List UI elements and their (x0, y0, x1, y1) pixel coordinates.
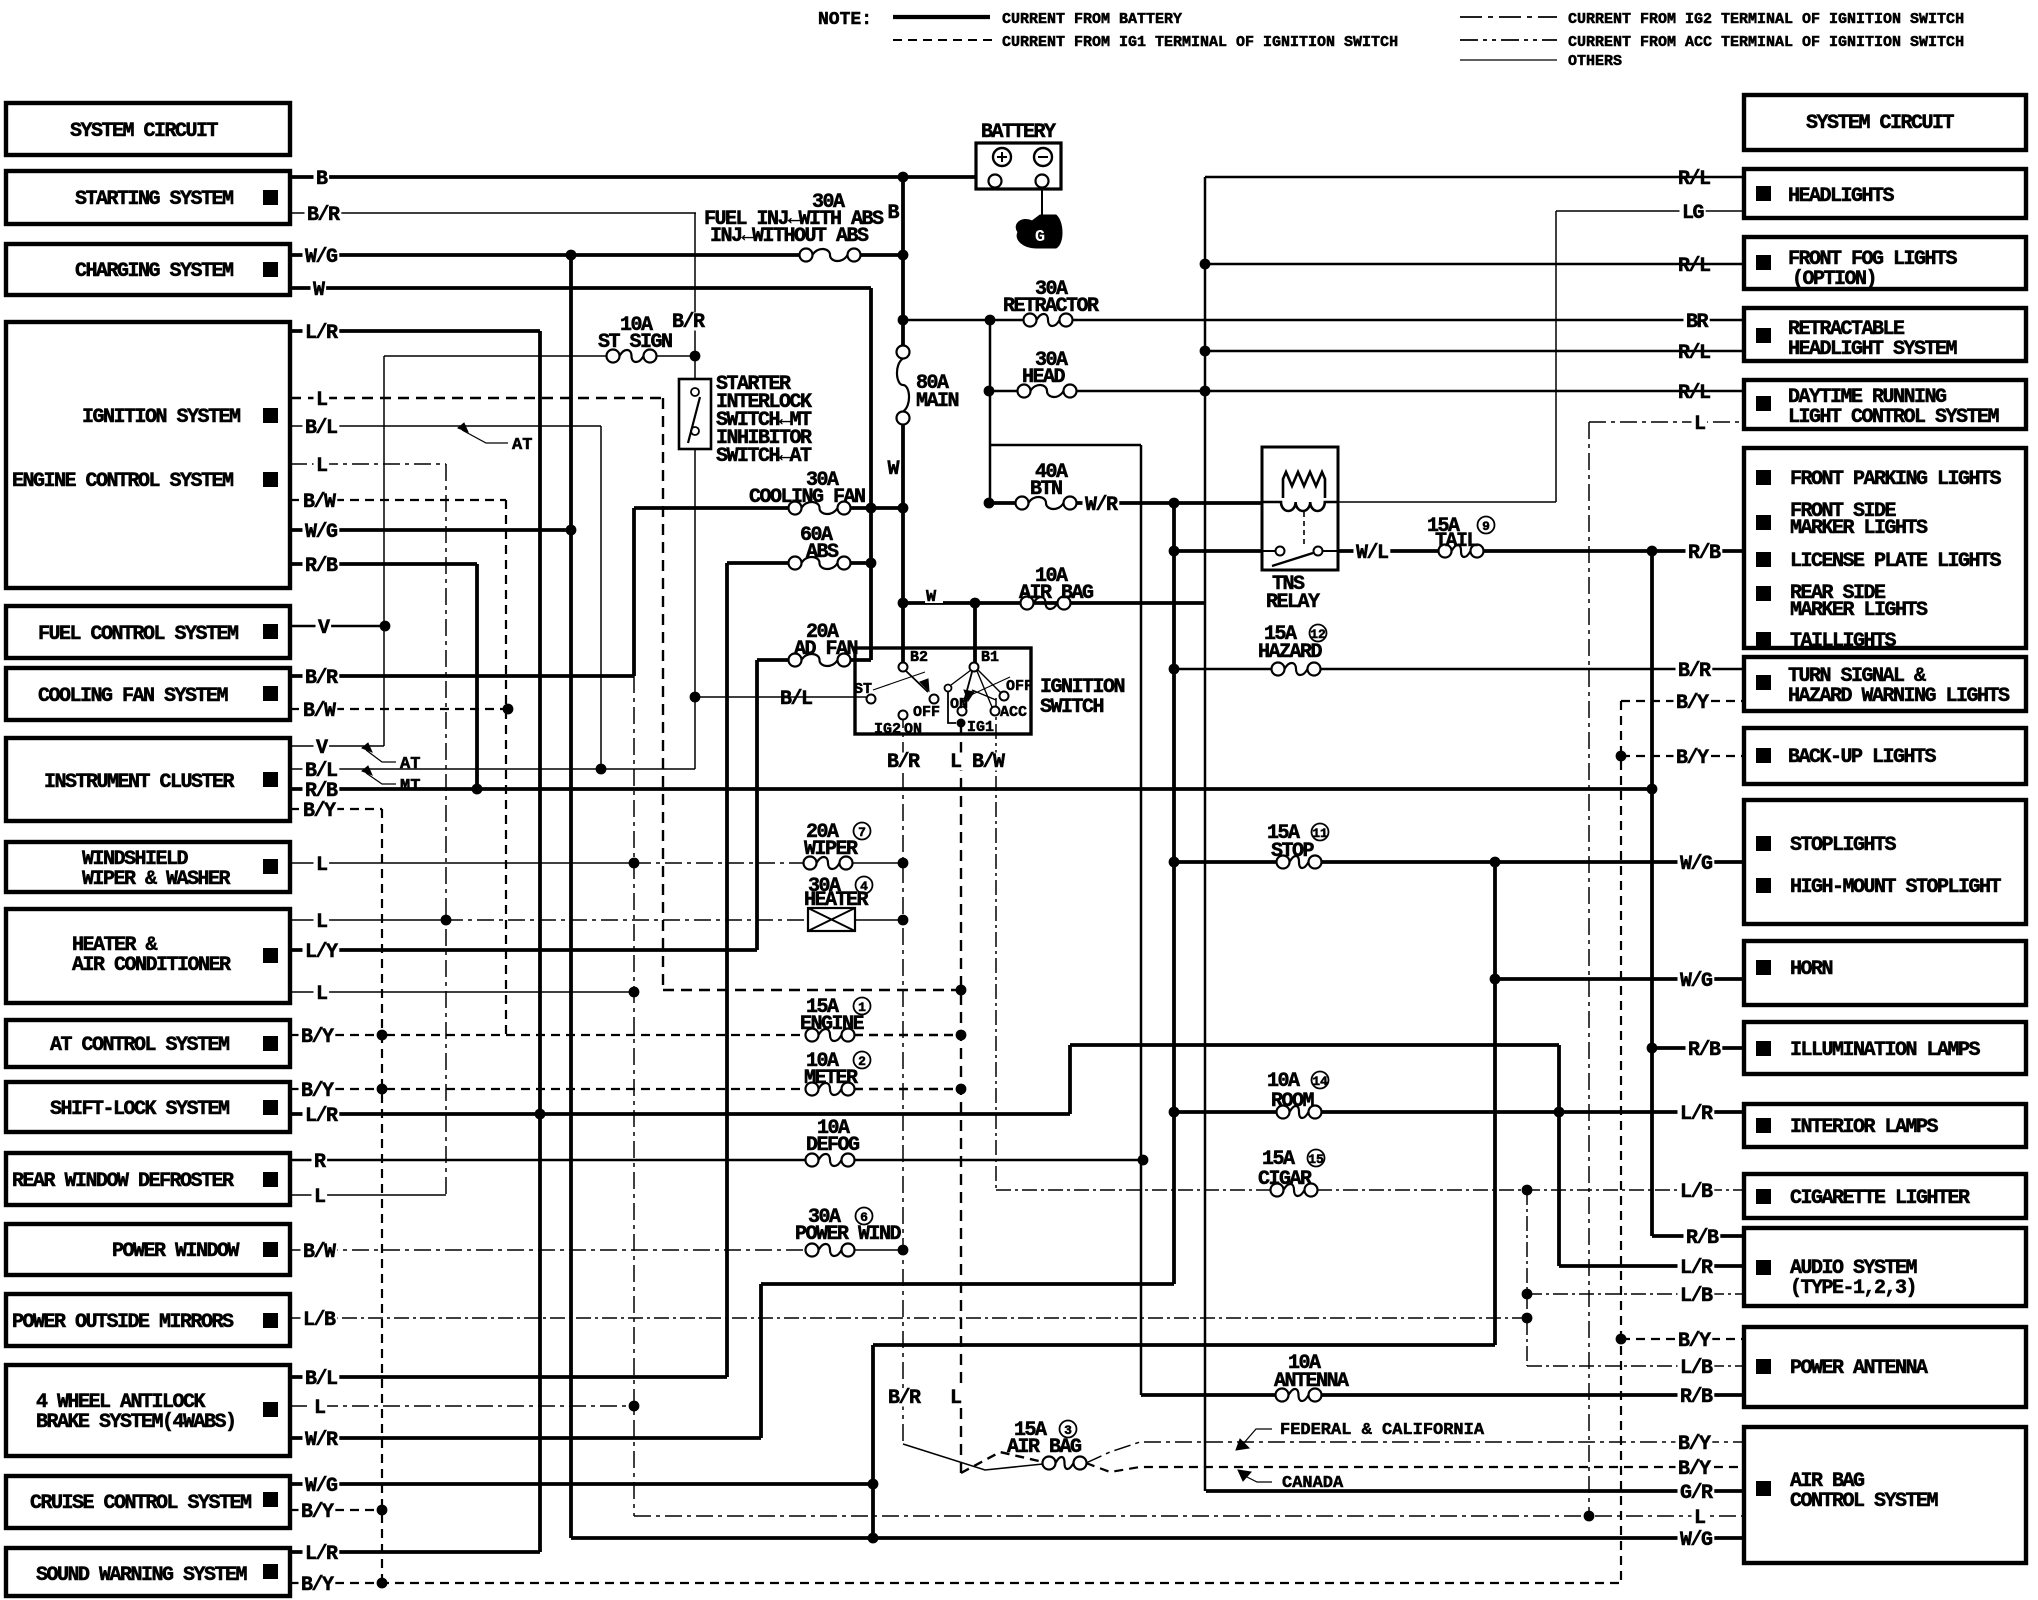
box HEATER & AIR CONDITIONER (6, 909, 290, 1003)
svg-text:ACC: ACC (1000, 704, 1027, 721)
wire R/B audio (1652, 1234, 1744, 1238)
wire B/Y antenna dashed (1621, 1338, 1744, 1340)
wire stop line (1174, 860, 1277, 864)
box DAYTIME RUNNING LIGHT CONTROL SYSTEM (1744, 380, 2026, 429)
svg-text:R/B: R/B (1688, 1039, 1721, 1062)
svg-text:TAIL: TAIL (1435, 530, 1478, 553)
arrow MT cluster (362, 766, 372, 775)
svg-text:R/B: R/B (1688, 542, 1721, 565)
ignition switch contact OFF right (1000, 692, 1009, 701)
wire tail fuse to R/B (1483, 549, 1744, 553)
svg-text:L: L (316, 455, 327, 478)
node hazard tap (1169, 664, 1180, 675)
ignition switch blade B1-contact (951, 670, 971, 685)
relay TNS box (1262, 447, 1338, 570)
wire B/L from instrument cluster (290, 768, 695, 770)
svg-text:B/R: B/R (672, 311, 705, 334)
svg-text:IGNITION SYSTEM: IGNITION SYSTEM (82, 406, 241, 429)
legend battery line (893, 15, 990, 19)
wire L from windshield wiper (290, 862, 634, 864)
svg-text:AT CONTROL SYSTEM: AT CONTROL SYSTEM (50, 1034, 230, 1057)
svg-text:B/R: B/R (1678, 660, 1711, 683)
wire engine fuse to IG1 bus (854, 1034, 961, 1036)
svg-text:AD FAN: AD FAN (794, 638, 858, 661)
node L/R interior junction (1554, 1107, 1565, 1118)
box REAR WINDOW DEFROSTER (6, 1153, 290, 1205)
svg-text:W/G: W/G (305, 246, 338, 269)
svg-text:W: W (313, 279, 325, 302)
bus L others vertical x634 (633, 676, 635, 1516)
node B/W junction (503, 704, 514, 715)
wire AD FAN fuse to W bus (850, 658, 871, 662)
fuse 15A HAZARD (1272, 663, 1285, 676)
wire B/L to ST (695, 696, 866, 698)
node B bus ignition feed (898, 598, 909, 609)
node W ABS tap (866, 558, 877, 569)
svg-text:MT: MT (400, 777, 420, 796)
ignition switch cross line 2 (960, 677, 1010, 700)
svg-text:BACK-UP LIGHTS: BACK-UP LIGHTS (1788, 746, 1937, 769)
node W cooling tap (866, 503, 877, 514)
wire AD FAN fuse line (757, 658, 789, 662)
legend ACC line (1460, 39, 1557, 41)
svg-text:7: 7 (858, 825, 866, 840)
fuse 15A AIR BAG (1043, 1457, 1056, 1470)
wire B/Y dashed from shift-lock (290, 1088, 386, 1090)
relay TNS link dashed (1303, 512, 1305, 544)
node head fuse tap (984, 386, 995, 397)
svg-text:B: B (887, 202, 899, 225)
svg-text:WIPER & WASHER: WIPER & WASHER (82, 868, 231, 891)
wire L from heater (290, 919, 446, 921)
bus R/B vertical x1652 (1650, 551, 1654, 1236)
svg-text:COOLING FAN SYSTEM: COOLING FAN SYSTEM (38, 685, 229, 708)
wire B1 drop (973, 603, 977, 663)
wire W/R BTN out (1076, 501, 1262, 505)
box INTERIOR LAMPS (1744, 1104, 2026, 1147)
bus W vertical x871 (869, 288, 873, 660)
wire R from rear defroster (290, 1159, 806, 1162)
wire L/B audio dash-dot (1527, 1293, 1744, 1295)
svg-text:HIGH-MOUNT STOPLIGHT: HIGH-MOUNT STOPLIGHT (1790, 876, 2002, 899)
fuse 10A AIR BAG (1021, 597, 1034, 610)
node W/G horn junction (1490, 974, 1501, 985)
svg-text:ILLUMINATION LAMPS: ILLUMINATION LAMPS (1790, 1039, 1981, 1062)
svg-text:L: L (314, 1186, 325, 1209)
svg-text:CONTROL SYSTEM: CONTROL SYSTEM (1790, 1490, 1939, 1513)
node B/Y backup junction (1616, 751, 1627, 762)
wire meter fuse to IG1 bus (854, 1088, 961, 1090)
box COOLING FAN SYSTEM (6, 668, 290, 720)
bus W/G vertical x571 (569, 255, 573, 1538)
bus cooling fan feed x634 upper (632, 508, 636, 676)
node L heater2 junction (629, 987, 640, 998)
svg-text:B/Y: B/Y (1678, 1433, 1711, 1456)
ignition switch blade B1-ACC (977, 671, 992, 707)
label L IG1 bus (948, 1389, 964, 1407)
node R/B cluster left junction (472, 784, 483, 795)
wire cooling fan fuse line (634, 506, 789, 510)
fuse 60A ABS (789, 557, 802, 570)
svg-text:G/R: G/R (1680, 1482, 1713, 1505)
node V junction (380, 621, 391, 632)
svg-text:CURRENT FROM IG2 TERMINAL OF I: CURRENT FROM IG2 TERMINAL OF IGNITION SW… (1568, 11, 1964, 28)
node ST SIGN junction (690, 351, 701, 362)
svg-text:R/L: R/L (1678, 168, 1710, 191)
svg-text:HAZARD WARNING LIGHTS: HAZARD WARNING LIGHTS (1788, 685, 2010, 708)
svg-text:W/G: W/G (305, 1475, 338, 1498)
box HEADLIGHTS (1744, 169, 2026, 218)
node B/Y sound junction (377, 1578, 388, 1589)
svg-text:POWER WIND: POWER WIND (795, 1223, 902, 1246)
svg-text:IG2: IG2 (874, 721, 901, 738)
svg-text:BR: BR (1686, 311, 1709, 334)
wire L/R riser jog (1068, 1045, 1072, 1114)
bus B main vertical (901, 177, 905, 345)
svg-text:OFF: OFF (1006, 678, 1033, 695)
relay TNS coil (1262, 502, 1338, 511)
wire room line (1174, 1110, 1277, 1114)
svg-text:V: V (318, 617, 330, 640)
svg-text:AT: AT (512, 436, 532, 455)
bus L/R audio vertical x1559 (1557, 1045, 1561, 1266)
starter interlock blade (688, 397, 700, 443)
svg-text:MARKER LIGHTS: MARKER LIGHTS (1790, 599, 1928, 622)
svg-text:HEAD: HEAD (1022, 366, 1066, 389)
svg-text:ON: ON (904, 721, 922, 738)
wire R/B from instrument cluster (290, 787, 1652, 791)
svg-text:TAILLIGHTS: TAILLIGHTS (1790, 630, 1897, 653)
bus head feed vertical x989 (989, 320, 992, 503)
svg-text:B/Y: B/Y (1678, 1458, 1711, 1481)
legend IG1 line (893, 39, 992, 41)
svg-text:ANTENNA: ANTENNA (1274, 1370, 1349, 1393)
svg-text:B/W: B/W (303, 1241, 336, 1264)
fuse 20A WIPER (804, 857, 817, 870)
starter interlock switch box (679, 379, 711, 449)
svg-text:L: L (316, 983, 327, 1006)
fuse 15A CIGAR (1271, 1184, 1284, 1197)
svg-text:OTHERS: OTHERS (1568, 53, 1622, 70)
svg-text:L: L (316, 854, 327, 877)
node B bus top (898, 172, 909, 183)
fuse 30A FUEL INJ (800, 249, 813, 262)
svg-text:ENGINE CONTROL SYSTEM: ENGINE CONTROL SYSTEM (12, 470, 234, 493)
wire ST SIGN fuse to B/R (656, 355, 695, 357)
wire W/L to tail fuse (1338, 549, 1439, 553)
wire head jog to defog bus (989, 444, 1141, 447)
wire V from fuel control (290, 625, 385, 628)
node W/G engine junction (566, 525, 577, 536)
wire TNS coil to LG riser (1338, 501, 1556, 503)
wire L dashed from ignition system (290, 397, 663, 399)
svg-text:AIR BAG: AIR BAG (1019, 582, 1094, 605)
node B/Y cruise junction (377, 1505, 388, 1516)
wire R/L headlights (1205, 176, 1744, 179)
svg-text:B/W: B/W (972, 751, 1005, 774)
svg-text:ENGINE: ENGINE (800, 1013, 865, 1036)
ignition switch blade B2-OFF (906, 671, 928, 692)
wire L dashed to IG1 bus (663, 989, 961, 991)
svg-text:2: 2 (858, 1054, 866, 1069)
ignition switch box (855, 648, 1031, 734)
wire cooling fan fuse to B bus (850, 506, 903, 510)
wire hazard line (1174, 668, 1272, 671)
svg-text:SWITCH: SWITCH (1040, 696, 1104, 719)
node R/L retract tap (1200, 346, 1211, 357)
svg-text:B2: B2 (910, 649, 928, 666)
svg-text:B/W: B/W (303, 700, 336, 723)
ignition switch pole2 contact (945, 685, 952, 692)
wire L heater to fusible link (446, 919, 808, 921)
wire B/Y to meter fuse dashed (386, 1088, 806, 1090)
box ILLUMINATION LAMPS (1744, 1022, 2026, 1074)
wire B/W dashed from cooling fan system (290, 708, 512, 710)
svg-text:CIGAR: CIGAR (1258, 1168, 1312, 1191)
fuse 10A DEFOG (806, 1154, 819, 1167)
wire B/L from 4WABS (290, 1375, 727, 1379)
svg-text:15: 15 (1308, 1152, 1324, 1167)
svg-text:HEADLIGHTS: HEADLIGHTS (1788, 185, 1895, 208)
svg-text:POWER ANTENNA: POWER ANTENNA (1790, 1357, 1928, 1380)
bus R/B vertical x477 (475, 564, 479, 789)
svg-text:STOPLIGHTS: STOPLIGHTS (1790, 834, 1897, 857)
svg-text:B/Y: B/Y (301, 1080, 334, 1103)
node L heater junction (441, 915, 452, 926)
wire B/Y dashed from instrument cluster (290, 808, 382, 810)
svg-text:W/G: W/G (305, 521, 338, 544)
svg-text:B/Y: B/Y (1676, 747, 1709, 770)
wire B/Y dashed from AT control (290, 1034, 386, 1036)
box WINDSHIELD WIPER & WASHER (6, 842, 290, 892)
svg-text:HAZARD: HAZARD (1258, 641, 1323, 664)
wire airbag fuse out federal (1086, 1442, 1744, 1463)
wire B from starting system (290, 175, 976, 179)
label W bus (885, 460, 901, 478)
box SYSTEM CIRCUIT right (1744, 95, 2026, 150)
fuse 10A METER (806, 1083, 819, 1096)
svg-text:RETRACTOR: RETRACTOR (1003, 295, 1099, 318)
svg-text:L/R: L/R (1680, 1257, 1713, 1280)
svg-text:B/Y: B/Y (301, 1574, 334, 1597)
legend IG2 line (1460, 16, 1557, 18)
svg-text:SHIFT-LOCK SYSTEM: SHIFT-LOCK SYSTEM (50, 1098, 230, 1121)
wire B2 drop (901, 603, 905, 663)
svg-text:INSTRUMENT CLUSTER: INSTRUMENT CLUSTER (44, 771, 235, 794)
svg-text:CRUISE CONTROL SYSTEM: CRUISE CONTROL SYSTEM (30, 1492, 252, 1515)
wire BR retractor to box (1072, 319, 1744, 322)
arrow canada (1238, 1470, 1251, 1481)
wire ABS fuse to W bus (850, 561, 871, 565)
ignition switch cross line (873, 672, 925, 690)
box FRONT PARKING / MARKER / LICENSE / TAIL LIGHTS (1744, 448, 2026, 648)
svg-text:SWITCH←AT: SWITCH←AT (716, 445, 812, 468)
svg-text:R/B: R/B (1686, 1227, 1719, 1250)
bus B/L ABS vertical x727 (725, 563, 729, 1377)
svg-text:L/R: L/R (1680, 1103, 1713, 1126)
box RETRACTABLE HEADLIGHT SYSTEM (1744, 308, 2026, 361)
wire B/Y dashed from sound warning (290, 1582, 1621, 1584)
svg-text:B1: B1 (981, 649, 999, 666)
box STOPLIGHTS / HIGH-MOUNT STOPLIGHT (1744, 800, 2026, 924)
fuse 30A POWER WIND (806, 1244, 819, 1257)
svg-text:B/R: B/R (307, 204, 340, 227)
svg-text:SYSTEM CIRCUIT: SYSTEM CIRCUIT (1806, 112, 1955, 135)
svg-text:W/L: W/L (1356, 542, 1388, 565)
ignition switch blade B1-ON (963, 672, 972, 705)
svg-text:POWER OUTSIDE MIRRORS: POWER OUTSIDE MIRRORS (12, 1311, 234, 1334)
wire battery to ground (1041, 188, 1043, 222)
svg-text:BRAKE SYSTEM(4WABS): BRAKE SYSTEM(4WABS) (36, 1411, 236, 1434)
box FRONT FOG LIGHTS (1744, 237, 2026, 289)
wire W/G from charging system (290, 253, 805, 257)
wire W/G stop to box (1321, 860, 1744, 864)
bus B/R ST vertical x695 (694, 213, 696, 769)
bus L dashed vertical x663 (662, 398, 664, 990)
node L airbag junction (1584, 1511, 1595, 1522)
ignition switch terminal ST (867, 695, 876, 704)
bus W/R vertical x761 (759, 1284, 763, 1438)
svg-text:L/R: L/R (305, 1543, 338, 1566)
wire TNS switch feed (1174, 549, 1262, 553)
bus defog/antenna vertical x1141 (1140, 445, 1143, 1395)
svg-text:B/R: B/R (888, 1387, 921, 1410)
box 4 WHEEL ANTILOCK BRAKE SYSTEM (6, 1365, 290, 1456)
svg-text:DEFOG: DEFOG (806, 1134, 860, 1157)
fuse 20A AD FAN (789, 654, 802, 667)
ignition switch terminal B1 (970, 663, 979, 672)
node W/G cruise junction (868, 1479, 879, 1490)
bus L daytime vertical x1589 (1588, 422, 1590, 1516)
bus L IG2 vertical x446 (445, 464, 447, 1195)
fusible link 30A HEATER (808, 908, 855, 931)
svg-text:R/L: R/L (1678, 342, 1710, 365)
bus W/G vertical x1495 (1493, 862, 1497, 1345)
node L/B audio junction (1522, 1289, 1533, 1300)
svg-text:W/R: W/R (1085, 494, 1118, 517)
box BACK-UP LIGHTS (1744, 728, 2026, 784)
svg-text:ON: ON (950, 696, 968, 713)
svg-text:W/G: W/G (1680, 1529, 1713, 1552)
svg-text:MARKER LIGHTS: MARKER LIGHTS (1790, 517, 1928, 540)
svg-text:NOTE:: NOTE: (818, 10, 872, 30)
svg-text:(TYPE-1,2,3): (TYPE-1,2,3) (1790, 1277, 1916, 1300)
bus B/Y vertical x1621 (1620, 701, 1622, 1586)
wire R/B illumination (1652, 1046, 1744, 1050)
svg-text:R/L: R/L (1678, 255, 1710, 278)
wire ST B/L label (778, 690, 815, 708)
wire R/L fog (1205, 263, 1744, 266)
wire L/B dash-dot from power mirrors (290, 1317, 1527, 1319)
fuse 10A ST SIGN (607, 350, 620, 363)
relay TNS switch (1276, 547, 1285, 556)
svg-text:L: L (950, 1387, 961, 1410)
svg-text:LG: LG (1682, 202, 1705, 225)
svg-text:B/R: B/R (887, 751, 920, 774)
wire L daytime dash-dot (1589, 421, 1744, 423)
svg-text:METER: METER (804, 1067, 858, 1090)
wire L dash-dot from 4WABS (290, 1405, 634, 1407)
wire B/R from cooling fan system (290, 674, 634, 678)
svg-text:14: 14 (1312, 1074, 1328, 1089)
relay TNS resistor (1283, 472, 1325, 498)
wire B/R hazard to box (1320, 668, 1744, 671)
wire L/R room to box (1321, 1110, 1744, 1114)
box AUDIO SYSTEM (1744, 1228, 2026, 1306)
wire W/G jog (873, 1343, 1495, 1347)
svg-text:L/Y: L/Y (305, 941, 338, 964)
bus ST SIGN feed vertical (383, 356, 385, 746)
wire W/R from 4WABS (290, 1436, 761, 1440)
svg-text:L: L (950, 751, 961, 774)
svg-text:ROOM: ROOM (1271, 1090, 1315, 1113)
svg-text:W/G: W/G (1680, 970, 1713, 993)
wire R/B antenna to box (1321, 1393, 1744, 1397)
wire airbag fuse out canada (1086, 1463, 1744, 1472)
wire retractor line (903, 319, 1024, 322)
svg-text:FRONT PARKING LIGHTS: FRONT PARKING LIGHTS (1790, 468, 2002, 491)
wire L/R from sound warning (290, 1550, 540, 1554)
svg-text:B/R: B/R (305, 667, 338, 690)
node B/Y AT junction (377, 1030, 388, 1041)
wire W from charging system (290, 286, 871, 290)
node room tap (1169, 1107, 1180, 1118)
wire L/R from shift-lock (290, 1112, 1070, 1116)
svg-text:9: 9 (1482, 519, 1490, 534)
wire B/Y turn signal dashed (1621, 700, 1744, 702)
svg-text:RELAY: RELAY (1266, 591, 1320, 614)
fuse 30A HEAD (1018, 385, 1031, 398)
svg-text:LIGHT CONTROL SYSTEM: LIGHT CONTROL SYSTEM (1788, 406, 2000, 429)
svg-text:B/Y: B/Y (303, 800, 336, 823)
svg-text:L: L (1694, 1507, 1705, 1530)
wire ABS fuse line (727, 561, 789, 565)
node W/G stop junction (1490, 857, 1501, 868)
svg-text:L/B: L/B (1680, 1357, 1713, 1380)
bus AD FAN vertical x757 (755, 660, 759, 950)
node B/L cluster junction (596, 764, 607, 775)
node B/Y shift junction (377, 1084, 388, 1095)
box POWER OUTSIDE MIRRORS (6, 1294, 290, 1346)
wire B/Y dashed from cruise control (290, 1509, 386, 1511)
wire BTN fuse line (989, 501, 1016, 505)
svg-text:V: V (316, 737, 328, 760)
wire antenna feed (1141, 1393, 1276, 1397)
svg-text:HORN: HORN (1790, 958, 1833, 981)
wire airbag fuse feed IG1 (961, 1452, 1043, 1473)
box AIR BAG CONTROL SYSTEM (1744, 1427, 2026, 1563)
svg-text:R/B: R/B (305, 555, 338, 578)
fuse 30A RETRACTOR (1024, 314, 1037, 327)
svg-text:R/B: R/B (1680, 1386, 1713, 1409)
svg-text:L: L (314, 1397, 325, 1420)
bus B/Y dashed vertical (381, 809, 383, 1583)
fuse 10A ROOM (1277, 1106, 1290, 1119)
legend others line (1460, 59, 1557, 61)
fuse 30A COOLING FAN (789, 502, 802, 515)
svg-text:R/L: R/L (1678, 382, 1710, 405)
svg-text:STOP: STOP (1271, 840, 1315, 863)
svg-text:L: L (316, 911, 327, 934)
wire ACC cigar feed (996, 1189, 1271, 1191)
wire ignition feed W (903, 601, 1205, 605)
svg-text:CURRENT FROM BATTERY: CURRENT FROM BATTERY (1002, 11, 1182, 28)
node stop tap (1169, 857, 1180, 868)
svg-text:B/L: B/L (305, 1368, 337, 1391)
wire G/R airbag (1206, 1489, 1744, 1493)
svg-text:B/Y: B/Y (1678, 1330, 1711, 1353)
wire defog fuse to bus (854, 1159, 1143, 1162)
